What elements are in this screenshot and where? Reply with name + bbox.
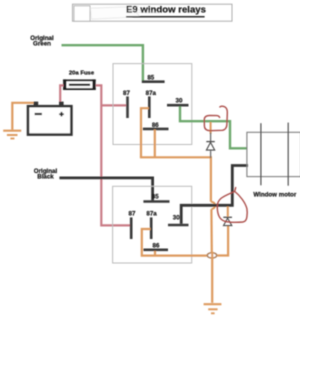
label Original Black [34, 168, 58, 181]
junction ellipse [207, 253, 216, 258]
lower relay pin 87 [129, 210, 136, 239]
svg-text:Window motor: Window motor [253, 192, 296, 199]
diode D1 [206, 142, 215, 151]
lower relay pin 86 [143, 242, 168, 249]
svg-text:85: 85 [152, 194, 159, 201]
upper relay pin 85 [142, 74, 165, 81]
title faint arrow [91, 6, 161, 19]
ground G2 [204, 304, 222, 313]
wire black Original Black to lower relay 85 [59, 178, 152, 201]
wire orange battery to ground [12, 103, 33, 130]
fuse F1 body [63, 79, 96, 90]
wire orange upper 86 down [154, 129, 156, 157]
window motor box [247, 123, 301, 186]
svg-text:86: 86 [153, 242, 160, 249]
lower relay pin 30 [168, 215, 189, 225]
svg-text:87: 87 [123, 90, 130, 97]
wire black lower 30 to motor [181, 166, 248, 224]
upper relay pin 87a [146, 90, 157, 118]
svg-text:30: 30 [173, 215, 180, 222]
wire orange vertical to junction with hop over black [211, 156, 215, 252]
svg-text:Green: Green [33, 41, 51, 48]
wire orange lower 87a down right [142, 229, 207, 256]
upper relay pin 30 [167, 97, 189, 105]
svg-text:87a: 87a [146, 210, 157, 217]
svg-text:85: 85 [147, 74, 154, 81]
wire orange upper 87a down [141, 108, 149, 157]
annotation scribble around diode D2 [217, 187, 247, 222]
svg-text:Black: Black [37, 174, 54, 181]
title box [73, 4, 233, 21]
label 20a Fuse [69, 71, 95, 77]
ground G1 [3, 131, 21, 139]
wire red branch to upper relay 87 [101, 104, 126, 106]
upper relay box [113, 64, 192, 145]
svg-text:87a: 87a [146, 90, 157, 97]
annotation scribble around diode D1 / green junction [204, 106, 227, 131]
wire red fuse left to battery + [60, 85, 63, 101]
upper relay pin 86 [143, 122, 169, 129]
lower relay pin 85 [143, 194, 169, 202]
svg-text:30: 30 [176, 97, 183, 104]
wire green from Original Green to upper relay 85 [62, 45, 143, 80]
diode D2 [223, 217, 232, 225]
battery B1 [28, 102, 71, 135]
label Window motor [253, 192, 296, 199]
wire orange middle horizontal [140, 156, 211, 158]
svg-text:E9 window relays: E9 window relays [126, 5, 206, 16]
label Original Green [30, 35, 54, 48]
wire red fuse right down to lower relay 87 [96, 85, 131, 225]
title inner small box [74, 6, 90, 21]
wire orange junction to diode D2 [218, 226, 229, 256]
wire green upper 30 to motor [180, 106, 248, 148]
diode D1 upper lead [210, 122, 212, 158]
wire orange lower 86 stub [154, 251, 156, 256]
upper relay pin 87 [123, 90, 130, 118]
lower relay box [113, 186, 192, 263]
svg-text:20a Fuse: 20a Fuse [69, 71, 95, 77]
wire orange junction down to ground [211, 252, 213, 303]
svg-text:87: 87 [129, 210, 136, 217]
title text: E9 window relays [126, 5, 206, 17]
diode D2 upper lead [227, 206, 229, 216]
lower relay pin 87a [146, 210, 157, 239]
